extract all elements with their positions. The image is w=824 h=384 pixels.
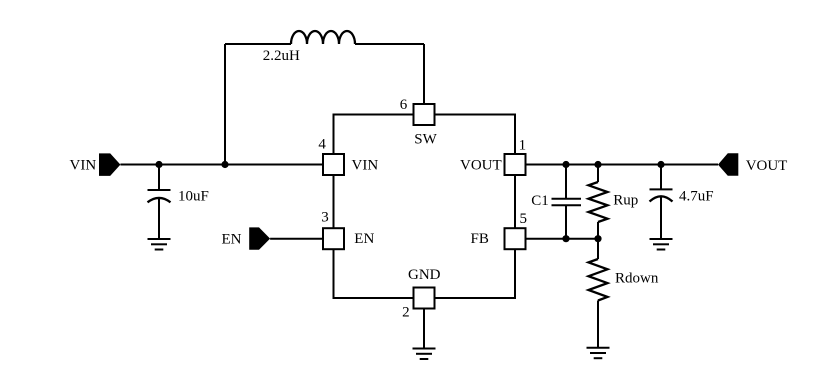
svg-text:VOUT: VOUT (746, 158, 788, 174)
svg-text:1: 1 (519, 138, 527, 154)
wire Rdown top lead (597, 239, 599, 259)
node junction Cin (155, 161, 162, 168)
svg-text:Rdown: Rdown (615, 271, 659, 287)
ground Cout (650, 239, 673, 250)
port EN label (222, 231, 242, 247)
pin number 6 (400, 97, 408, 113)
svg-text:10uF: 10uF (178, 189, 209, 205)
wire down to SW pin (423, 44, 425, 105)
svg-text:C1: C1 (531, 193, 549, 209)
label C1 (531, 193, 549, 209)
capacitor Cin 10uF (148, 190, 171, 202)
label 10uF (178, 189, 209, 205)
svg-text:5: 5 (520, 211, 528, 227)
svg-text:GND: GND (408, 267, 441, 283)
pin 1 VOUT box (505, 154, 526, 175)
ground Cin (148, 239, 171, 250)
port VIN symbol (99, 153, 120, 176)
pin label VOUT (460, 158, 502, 174)
wire Rup top lead (597, 165, 599, 183)
wire VIN rail (120, 164, 323, 166)
capacitor Cout 4.7uF (650, 189, 673, 201)
label 4.7uF (679, 189, 714, 205)
pin number 4 (318, 137, 326, 153)
wire Rup bottom lead (597, 222, 599, 239)
svg-text:EN: EN (354, 231, 374, 247)
label Rdown (615, 271, 659, 287)
wire top left segment (225, 43, 291, 45)
node junction C1 top (562, 161, 569, 168)
wire C1 top lead (565, 165, 567, 199)
node junction Cout top (657, 161, 664, 168)
node junction inductor tap (221, 161, 228, 168)
svg-text:EN: EN (222, 231, 242, 247)
node junction FB divider (594, 235, 601, 242)
pin 5 FB box (505, 228, 526, 249)
port VOUT label (746, 158, 788, 174)
pin number 5 (520, 211, 528, 227)
pin label GND (408, 267, 441, 283)
resistor Rdown (589, 259, 608, 301)
label Rup (613, 193, 638, 209)
svg-text:VIN: VIN (70, 158, 97, 174)
port VOUT symbol (718, 153, 738, 176)
svg-text:2.2uH: 2.2uH (263, 48, 300, 64)
svg-text:6: 6 (400, 97, 408, 113)
wire FB rail (526, 238, 599, 240)
svg-text:4: 4 (318, 137, 326, 153)
node junction Rup top (594, 161, 601, 168)
inductor L1 2.2uH (291, 31, 355, 44)
wire EN to pin 3 (270, 238, 323, 240)
pin label VIN (352, 158, 379, 174)
IC U1 body (334, 115, 516, 299)
ground Rdown (587, 348, 610, 359)
pin label SW (414, 132, 437, 148)
pin 6 SW box (414, 104, 435, 125)
svg-text:FB: FB (471, 231, 489, 247)
pin number 2 (402, 304, 410, 320)
pin label FB (471, 231, 489, 247)
resistor Rup (589, 182, 608, 222)
pin number 3 (321, 210, 329, 226)
label 2.2uH (263, 48, 300, 64)
port EN symbol (249, 227, 270, 249)
wire Cin top lead (158, 165, 160, 191)
capacitor C1 (552, 199, 582, 206)
node junction C1 bottom (562, 235, 569, 242)
wire Rdown bottom lead (597, 301, 599, 348)
wire Cin bottom lead (158, 198, 160, 239)
svg-text:SW: SW (414, 132, 437, 148)
ground IC GND (413, 349, 436, 360)
pin label EN (354, 231, 374, 247)
wire C1 bottom lead (565, 205, 567, 239)
pin 2 GND box (414, 288, 435, 309)
wire riser to inductor (224, 44, 226, 165)
svg-text:4.7uF: 4.7uF (679, 189, 714, 205)
wire VOUT rail (526, 164, 719, 166)
pin 3 EN box (323, 228, 344, 249)
port VIN label (70, 158, 97, 174)
wire top right segment (355, 43, 424, 45)
pin number 1 (519, 138, 527, 154)
svg-text:VIN: VIN (352, 158, 379, 174)
svg-text:3: 3 (321, 210, 329, 226)
svg-text:VOUT: VOUT (460, 158, 502, 174)
svg-text:2: 2 (402, 304, 410, 320)
wire GND pin lead (423, 309, 425, 349)
wire Cout top lead (660, 165, 662, 190)
wire Cout bottom lead (660, 196, 662, 239)
pin 4 VIN box (323, 154, 344, 175)
svg-text:Rup: Rup (613, 193, 638, 209)
